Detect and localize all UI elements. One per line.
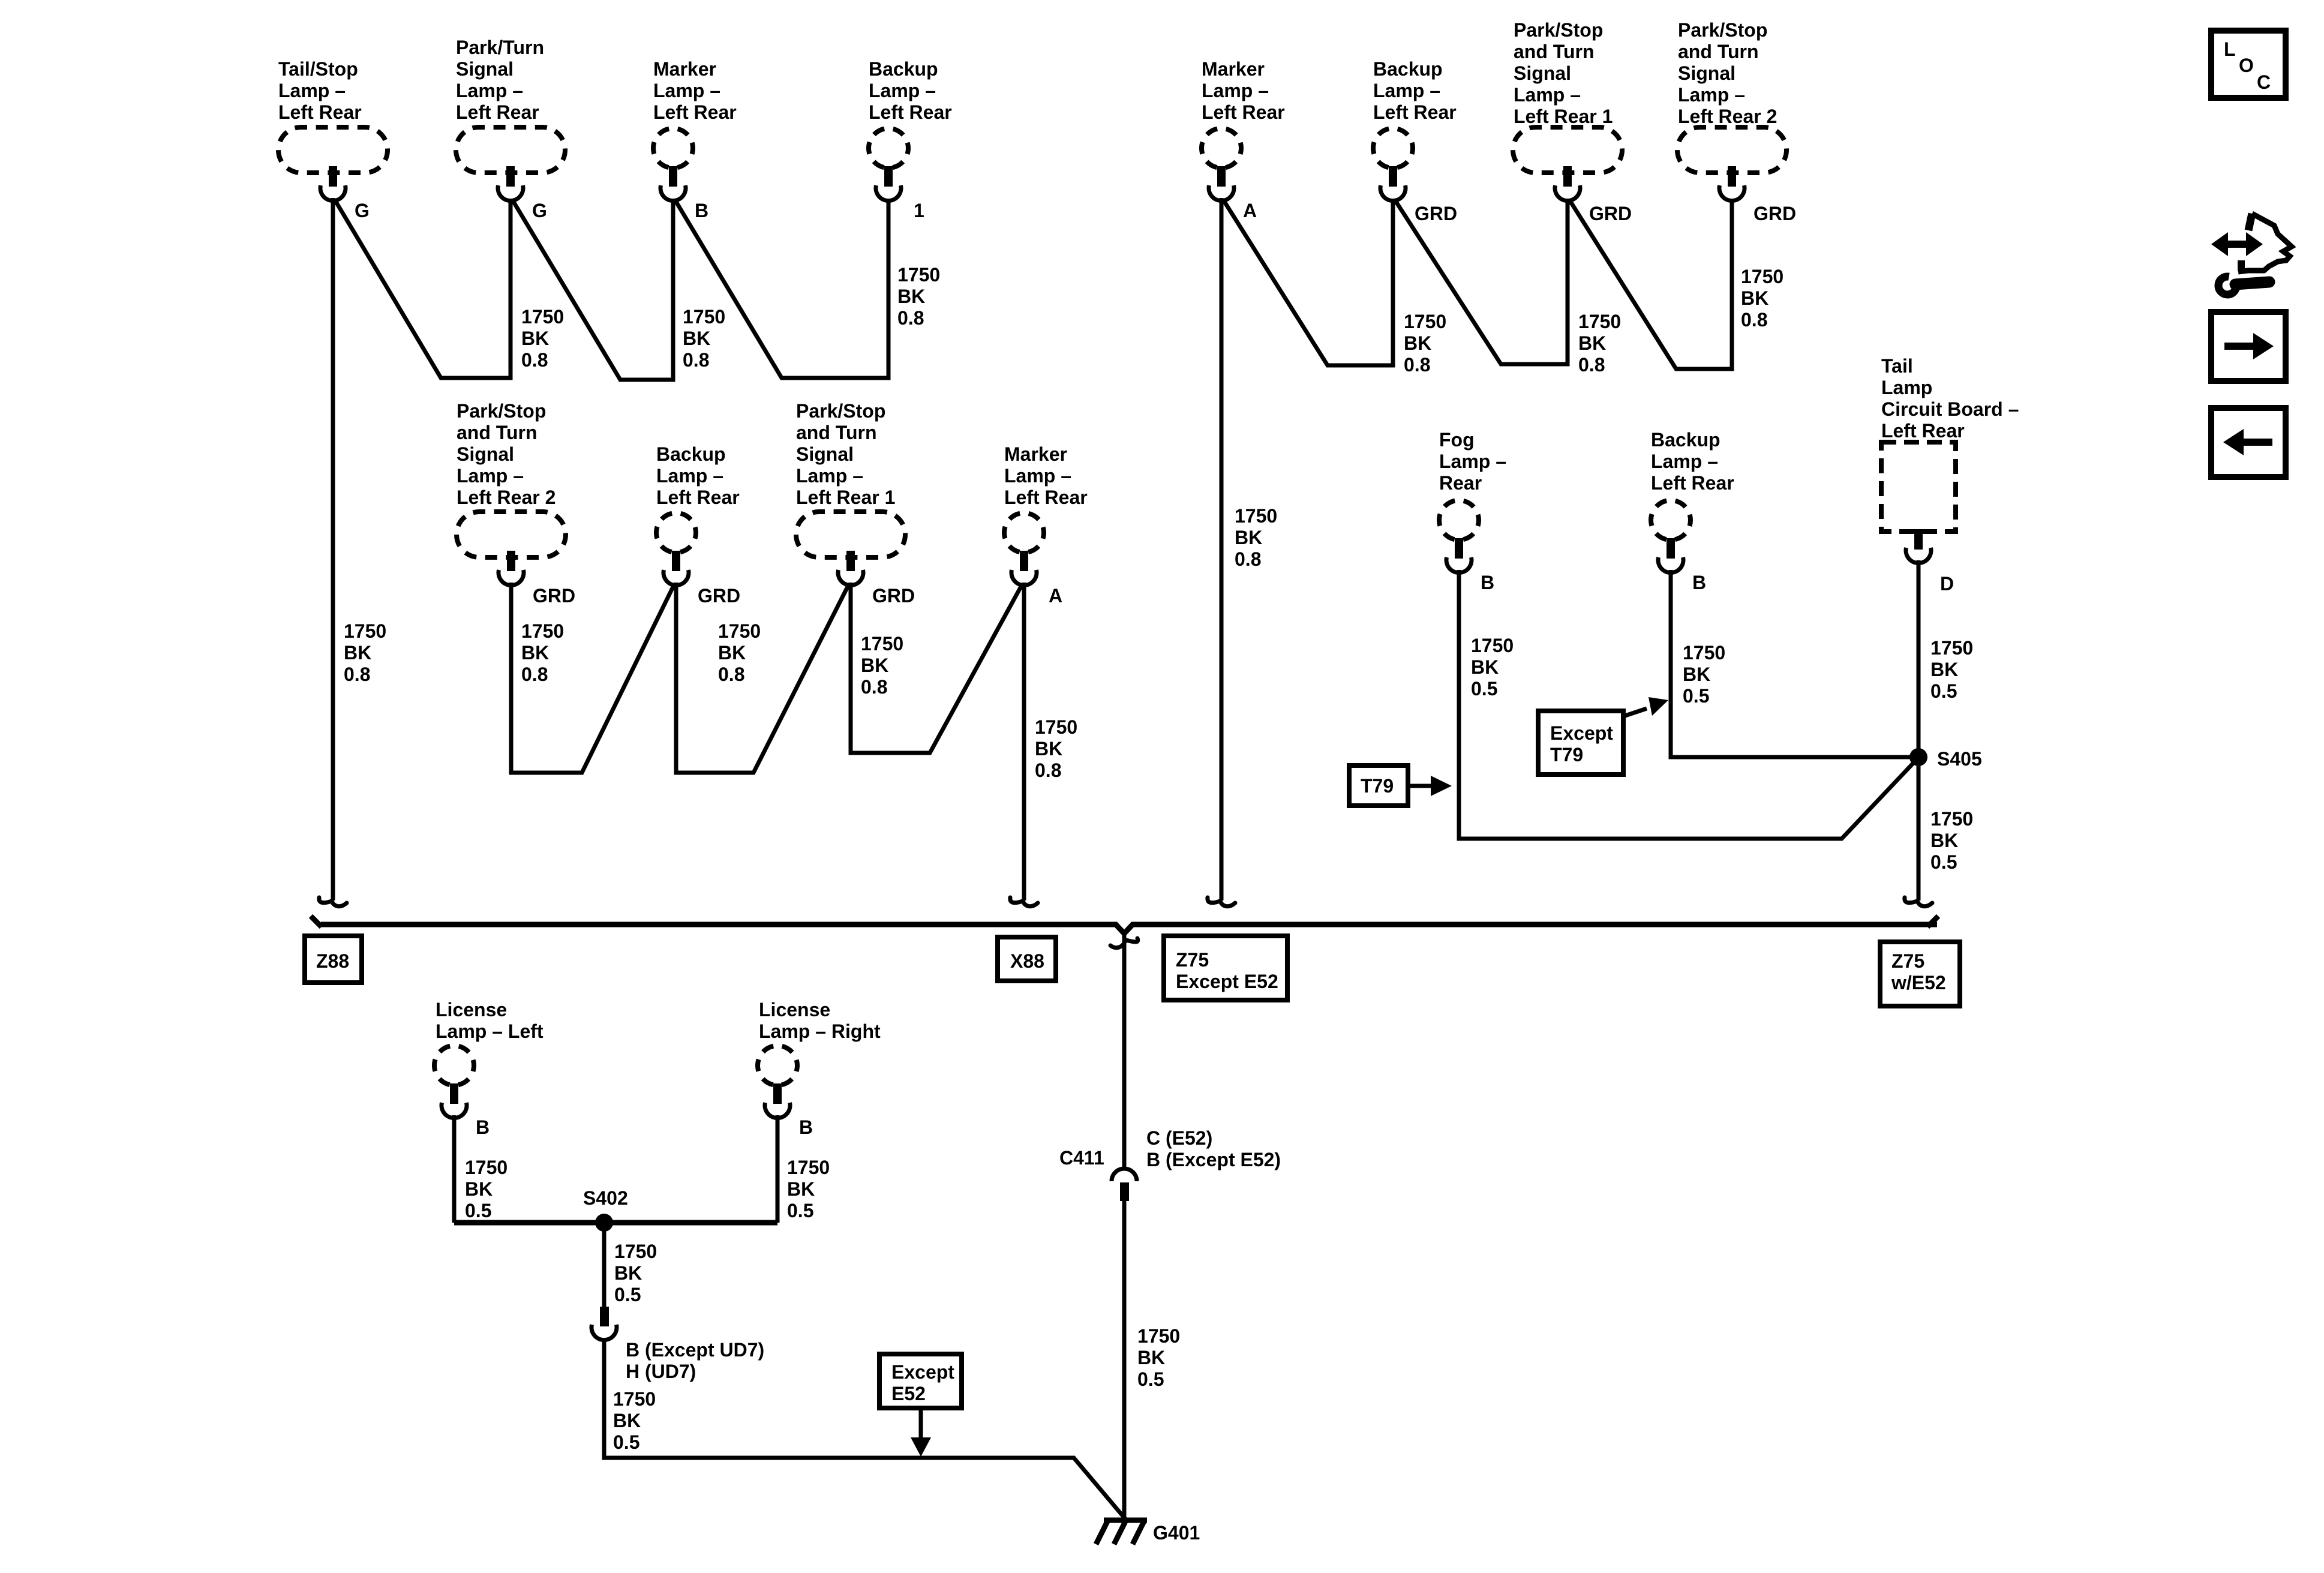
- svg-text:w/E52: w/E52: [1891, 972, 1946, 993]
- lamp E6: Backup Lamp - Left Rear (right section top): [1373, 58, 1457, 201]
- svg-text:Lamp – Right: Lamp – Right: [759, 1020, 881, 1042]
- wire attachment curl at bus (Tail/Stop): [319, 897, 347, 906]
- svg-text:0.5: 0.5: [1471, 678, 1497, 700]
- svg-text:Signal: Signal: [1514, 62, 1571, 84]
- svg-text:0.8: 0.8: [521, 349, 548, 371]
- component E15: Tail Lamp Circuit Board - Left Rear: [1881, 355, 2019, 563]
- lamp E10: Backup Lamp - Left Rear (middle row): [656, 443, 740, 586]
- option box T79 with arrow: [1349, 766, 1452, 806]
- svg-text:Park/Stop: Park/Stop: [1678, 19, 1767, 41]
- svg-text:0.8: 0.8: [1741, 309, 1767, 331]
- svg-text:Lamp –: Lamp –: [1202, 80, 1269, 101]
- svg-text:0.8: 0.8: [897, 307, 924, 329]
- svg-text:1750: 1750: [344, 620, 386, 642]
- wire: Park/Stop 1 GRD diagonal to Park/Stop 2 riser: [1569, 200, 1732, 369]
- svg-text:BK: BK: [718, 642, 746, 664]
- svg-text:0.8: 0.8: [1235, 548, 1261, 570]
- svg-text:0.8: 0.8: [521, 664, 548, 685]
- svg-text:Left Rear: Left Rear: [653, 101, 737, 123]
- svg-text:and Turn: and Turn: [1678, 41, 1759, 62]
- wire: Backup GRD to Park/Stop 1 riser (middle): [676, 583, 849, 773]
- svg-text:0.5: 0.5: [1930, 851, 1957, 873]
- svg-text:Tail: Tail: [1881, 355, 1913, 377]
- wire: Backup B to splice S405: [1671, 570, 1918, 757]
- svg-text:Park/Stop: Park/Stop: [457, 400, 546, 422]
- svg-text:Left Rear 2: Left Rear 2: [457, 487, 556, 508]
- svg-text:B: B: [695, 200, 708, 221]
- svg-text:GRD: GRD: [1415, 203, 1457, 224]
- svg-text:1750: 1750: [787, 1157, 830, 1178]
- svg-text:BK: BK: [1471, 656, 1499, 678]
- svg-text:License: License: [436, 999, 507, 1020]
- svg-text:1: 1: [914, 200, 924, 221]
- svg-text:G: G: [355, 200, 370, 221]
- lamp E3: Marker Lamp - Left Rear (top): [653, 58, 737, 201]
- svg-text:1750: 1750: [521, 306, 564, 328]
- svg-text:Signal: Signal: [456, 58, 514, 80]
- svg-text:Park/Turn: Park/Turn: [456, 37, 544, 58]
- bus left end tick: [311, 916, 322, 927]
- svg-text:GRD: GRD: [1753, 203, 1796, 224]
- svg-text:BK: BK: [613, 1410, 641, 1431]
- svg-text:1750: 1750: [683, 306, 725, 328]
- svg-text:Left Rear: Left Rear: [656, 487, 740, 508]
- svg-text:0.5: 0.5: [787, 1200, 813, 1221]
- option box Except E52 with arrow: [879, 1354, 962, 1457]
- svg-text:BK: BK: [1235, 527, 1262, 548]
- svg-text:0.5: 0.5: [1683, 685, 1709, 707]
- wire: S402 down to inline connector: [602, 1223, 606, 1308]
- svg-text:S402: S402: [583, 1187, 628, 1209]
- inline connector below S402: [591, 1307, 617, 1340]
- svg-text:and Turn: and Turn: [457, 422, 538, 443]
- svg-text:Left Rear: Left Rear: [1651, 472, 1734, 494]
- svg-text:1750: 1750: [861, 633, 903, 655]
- svg-text:0.8: 0.8: [1035, 760, 1061, 781]
- svg-text:Backup: Backup: [656, 443, 726, 465]
- svg-text:Fog: Fog: [1439, 429, 1475, 451]
- svg-text:1750: 1750: [1235, 505, 1277, 527]
- svg-text:1750: 1750: [1404, 311, 1446, 332]
- lamp E8: Park/Stop and Turn Signal Lamp - Left Rear 2 (top): [1677, 19, 1786, 201]
- wire: Marker B diagonal to Backup riser: [675, 200, 888, 378]
- wire: Fog B to splice S405: [1459, 570, 1917, 839]
- svg-text:G: G: [532, 200, 547, 221]
- svg-text:GRD: GRD: [872, 585, 915, 607]
- svg-text:Lamp –: Lamp –: [796, 465, 863, 487]
- svg-text:0.8: 0.8: [344, 664, 370, 685]
- svg-text:0.5: 0.5: [614, 1284, 641, 1305]
- svg-text:Backup: Backup: [869, 58, 938, 80]
- wire attachment curl at bus (S405 wire): [1905, 897, 1932, 906]
- svg-text:T79: T79: [1361, 775, 1394, 797]
- svg-text:Left Rear 1: Left Rear 1: [796, 487, 895, 508]
- svg-text:1750: 1750: [613, 1388, 656, 1410]
- wire attachment curl at bus (Marker middle): [1010, 897, 1038, 906]
- svg-text:GRD: GRD: [1589, 203, 1632, 224]
- svg-text:C (E52): C (E52): [1146, 1127, 1212, 1149]
- svg-text:1750: 1750: [718, 620, 761, 642]
- svg-text:1750: 1750: [465, 1157, 508, 1178]
- svg-text:Z75: Z75: [1176, 949, 1209, 971]
- svg-text:B: B: [1481, 572, 1494, 593]
- svg-text:0.5: 0.5: [1930, 680, 1957, 702]
- wire curl from bus notch to C411: [1110, 938, 1138, 948]
- svg-text:1750: 1750: [897, 264, 940, 286]
- svg-text:BK: BK: [787, 1178, 815, 1200]
- svg-text:1750: 1750: [1741, 266, 1783, 287]
- svg-text:Except: Except: [891, 1361, 954, 1383]
- wire: Park/Stop 1 GRD to Marker riser (middle): [851, 583, 1022, 753]
- icon: back arrow box: [2211, 408, 2286, 477]
- ground G401: [1096, 1520, 1147, 1544]
- lamp E11: Park/Stop and Turn Signal Lamp - Left Rear 1 (middle row): [796, 400, 905, 586]
- svg-text:BK: BK: [1404, 332, 1431, 354]
- lamp E13: Fog Lamp - Rear: [1439, 429, 1506, 573]
- wire: connector down and over to ground G401: [604, 1338, 1125, 1519]
- svg-text:BK: BK: [1578, 332, 1606, 354]
- svg-text:BK: BK: [614, 1262, 642, 1284]
- wire: Marker A down to ground bus X88: [1022, 583, 1026, 900]
- svg-text:Signal: Signal: [1678, 62, 1736, 84]
- svg-text:A: A: [1049, 585, 1062, 607]
- svg-text:0.8: 0.8: [1578, 354, 1605, 376]
- ground bus wire (Z88 / X88 / Z75): [321, 924, 1937, 933]
- svg-text:Left Rear 1: Left Rear 1: [1514, 106, 1613, 127]
- svg-text:C: C: [2257, 71, 2271, 93]
- svg-text:1750: 1750: [1578, 311, 1621, 332]
- svg-text:BK: BK: [1930, 830, 1958, 851]
- svg-text:B (Except E52): B (Except E52): [1146, 1149, 1281, 1170]
- svg-text:Marker: Marker: [1202, 58, 1265, 80]
- svg-text:0.5: 0.5: [613, 1431, 639, 1453]
- svg-text:B: B: [1692, 572, 1706, 593]
- svg-text:L: L: [2224, 38, 2236, 60]
- svg-text:1750: 1750: [1930, 808, 1973, 830]
- svg-text:Z75: Z75: [1891, 950, 1924, 972]
- svg-text:B: B: [799, 1116, 813, 1138]
- svg-text:1750: 1750: [614, 1241, 657, 1262]
- svg-text:Except E52: Except E52: [1176, 971, 1278, 992]
- svg-text:BK: BK: [1035, 738, 1062, 760]
- svg-text:Lamp –: Lamp –: [278, 80, 346, 101]
- wire: License Left B down: [452, 1115, 457, 1223]
- svg-text:0.8: 0.8: [1404, 354, 1430, 376]
- icon: LOC box: [2211, 31, 2286, 98]
- svg-text:1750: 1750: [1930, 637, 1973, 659]
- svg-text:BK: BK: [1683, 664, 1710, 685]
- wire: Tail/Stop pin G down to ground bus Z88: [331, 198, 335, 900]
- svg-text:Lamp –: Lamp –: [653, 80, 720, 101]
- connector C411: [1112, 1169, 1137, 1201]
- net box X88: [998, 937, 1056, 981]
- svg-text:1750: 1750: [1137, 1325, 1180, 1347]
- wire: C411 to ground G401: [1122, 1201, 1127, 1520]
- lamp E16: License Lamp - Left: [434, 999, 544, 1118]
- svg-text:O: O: [2239, 55, 2254, 76]
- svg-text:BK: BK: [465, 1178, 493, 1200]
- svg-text:Lamp –: Lamp –: [869, 80, 936, 101]
- lamp E14: Backup Lamp - Left Rear (right middle): [1651, 429, 1734, 573]
- svg-text:D: D: [1940, 573, 1954, 595]
- svg-text:and Turn: and Turn: [796, 422, 877, 443]
- wire: circuit board D through S405 down to ground bus: [1917, 560, 1921, 900]
- wire: bus to connector C411: [1122, 933, 1127, 1169]
- svg-text:Lamp –: Lamp –: [1651, 451, 1718, 472]
- svg-text:Rear: Rear: [1439, 472, 1482, 494]
- lamp E7: Park/Stop and Turn Signal Lamp - Left Rear 1 (top): [1513, 19, 1622, 201]
- wire: Marker A down to ground bus: [1220, 198, 1224, 900]
- net box Z88: [305, 936, 362, 983]
- wire: License Right B down: [776, 1115, 780, 1223]
- lamp E1: Tail/Stop Lamp - Left Rear: [278, 58, 388, 201]
- svg-text:X88: X88: [1010, 950, 1044, 972]
- splice S402: [595, 1214, 613, 1232]
- svg-text:Z88: Z88: [316, 950, 349, 972]
- svg-text:0.5: 0.5: [465, 1200, 491, 1221]
- svg-text:E52: E52: [891, 1383, 926, 1404]
- splice S405: [1909, 748, 1927, 766]
- bus right end tick: [1927, 916, 1938, 927]
- svg-text:G401: G401: [1153, 1522, 1200, 1544]
- svg-text:License: License: [759, 999, 830, 1020]
- svg-text:Marker: Marker: [653, 58, 716, 80]
- svg-text:B (Except UD7): B (Except UD7): [626, 1339, 764, 1361]
- svg-text:Left Rear: Left Rear: [278, 101, 362, 123]
- svg-text:Left Rear: Left Rear: [1004, 487, 1088, 508]
- svg-text:1750: 1750: [1683, 642, 1725, 664]
- option box Except T79 with arrow: [1538, 697, 1668, 775]
- svg-text:Lamp –: Lamp –: [456, 80, 523, 101]
- svg-text:BK: BK: [344, 642, 371, 664]
- svg-text:1750: 1750: [1035, 716, 1077, 738]
- svg-text:BK: BK: [521, 328, 549, 349]
- svg-text:GRD: GRD: [533, 585, 575, 607]
- lamp E5: Marker Lamp - Left Rear (right section): [1202, 58, 1285, 201]
- svg-text:Signal: Signal: [796, 443, 854, 465]
- svg-text:Backup: Backup: [1373, 58, 1443, 80]
- lamp E9: Park/Stop and Turn Signal Lamp - Left Rear 2 (middle row): [457, 400, 566, 586]
- svg-text:Lamp –: Lamp –: [1439, 451, 1506, 472]
- svg-text:H (UD7): H (UD7): [626, 1361, 696, 1382]
- svg-text:Lamp –: Lamp –: [1004, 465, 1071, 487]
- net box Z75 Except E52: [1164, 936, 1287, 1000]
- wire: Backup GRD diagonal to Park/Stop 1 riser: [1395, 200, 1568, 364]
- svg-text:A: A: [1243, 200, 1257, 221]
- svg-text:0.8: 0.8: [683, 349, 709, 371]
- svg-text:0.5: 0.5: [1137, 1368, 1164, 1390]
- svg-text:Circuit Board –: Circuit Board –: [1881, 398, 2019, 420]
- icon: service/diagnostic symbol: [2211, 214, 2292, 295]
- wire: Park/Turn G diagonal to Marker riser: [512, 200, 673, 380]
- lamp E4: Backup Lamp - Left Rear (top): [869, 58, 952, 201]
- svg-text:Park/Stop: Park/Stop: [796, 400, 885, 422]
- svg-text:Lamp –: Lamp –: [457, 465, 524, 487]
- svg-text:and Turn: and Turn: [1514, 41, 1595, 62]
- svg-text:Park/Stop: Park/Stop: [1514, 19, 1603, 41]
- svg-text:C411: C411: [1059, 1147, 1104, 1169]
- svg-text:GRD: GRD: [698, 585, 740, 607]
- wire: Tail/Stop G diagonal to Park/Turn riser: [335, 200, 511, 378]
- svg-text:BK: BK: [683, 328, 710, 349]
- lamp E2: Park/Turn Signal Lamp - Left Rear: [456, 37, 565, 201]
- svg-text:Signal: Signal: [457, 443, 514, 465]
- svg-text:1750: 1750: [521, 620, 564, 642]
- wire attachment curl at bus (Marker right): [1208, 897, 1235, 906]
- svg-text:B: B: [476, 1116, 490, 1138]
- svg-text:Left Rear 2: Left Rear 2: [1678, 106, 1777, 127]
- svg-text:1750: 1750: [1471, 635, 1514, 656]
- svg-text:Lamp –: Lamp –: [1678, 84, 1745, 106]
- svg-text:Except: Except: [1550, 722, 1613, 744]
- svg-text:0.8: 0.8: [718, 664, 744, 685]
- svg-text:BK: BK: [861, 655, 888, 676]
- svg-text:S405: S405: [1937, 748, 1982, 770]
- lamp E17: License Lamp - Right: [758, 999, 881, 1118]
- svg-text:Left Rear: Left Rear: [1881, 420, 1965, 442]
- svg-text:Lamp –: Lamp –: [1373, 80, 1440, 101]
- svg-text:Lamp –: Lamp –: [1514, 84, 1581, 106]
- svg-text:BK: BK: [1741, 287, 1768, 309]
- svg-text:BK: BK: [1930, 659, 1958, 680]
- svg-text:Lamp: Lamp: [1881, 377, 1932, 398]
- net box Z75 w/E52: [1880, 942, 1960, 1006]
- svg-text:0.8: 0.8: [861, 676, 887, 698]
- svg-text:Backup: Backup: [1651, 429, 1721, 451]
- svg-text:Left Rear: Left Rear: [1373, 101, 1457, 123]
- svg-text:Left Rear: Left Rear: [869, 101, 952, 123]
- svg-text:BK: BK: [521, 642, 549, 664]
- icon: forward arrow box: [2211, 312, 2286, 381]
- wire: Marker A diagonal to Backup riser (right): [1223, 200, 1393, 365]
- svg-text:Lamp – Left: Lamp – Left: [436, 1020, 544, 1042]
- svg-text:Lamp –: Lamp –: [656, 465, 723, 487]
- svg-text:Left Rear: Left Rear: [1202, 101, 1285, 123]
- svg-text:BK: BK: [1137, 1347, 1165, 1368]
- lamp E12: Marker Lamp - Left Rear (middle row): [1004, 443, 1088, 586]
- svg-text:Marker: Marker: [1004, 443, 1067, 465]
- wire joining license lamps: [454, 1220, 777, 1226]
- svg-text:Tail/Stop: Tail/Stop: [278, 58, 358, 80]
- svg-text:BK: BK: [897, 286, 925, 307]
- wire: Park/Stop 2 GRD to Backup riser (middle): [511, 583, 674, 773]
- svg-text:T79: T79: [1550, 744, 1583, 766]
- svg-text:Left Rear: Left Rear: [456, 101, 539, 123]
